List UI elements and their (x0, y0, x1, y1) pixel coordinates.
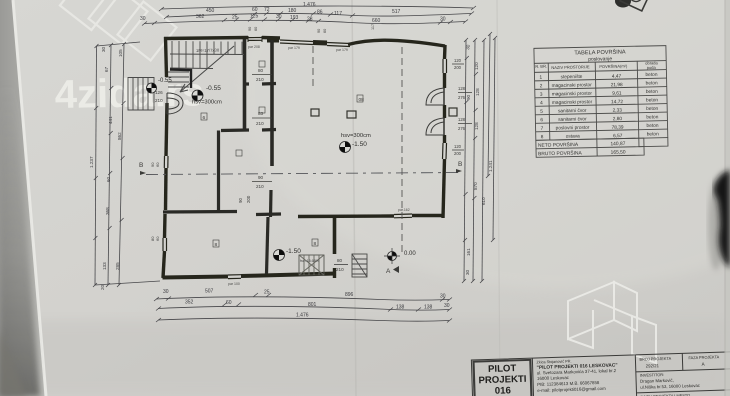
top dim line 1 overall (161, 6, 473, 9)
svg-text:beton: beton (646, 106, 658, 112)
table rows (539, 72, 659, 141)
left small horizontal hooks top (95, 42, 160, 285)
stair mid divider (170, 53, 244, 56)
wall H2 (221, 130, 276, 131)
svg-text:magacinski prostor: magacinski prostor (552, 99, 593, 106)
svg-text:352: 352 (185, 300, 194, 306)
svg-text:30: 30 (276, 14, 282, 20)
right dim vertical R3 (482, 40, 484, 281)
svg-text:138: 138 (396, 305, 405, 311)
section marker A (386, 266, 399, 275)
svg-text:30: 30 (440, 17, 446, 23)
svg-text:-0.55: -0.55 (158, 78, 172, 84)
window 80/60 left (162, 238, 164, 251)
svg-text:140,87: 140,87 (610, 141, 625, 147)
table header (535, 60, 658, 72)
svg-text:fsv=15.65%: fsv=15.65% (300, 259, 320, 263)
wall left: top corner down to door (166, 37, 167, 77)
top line3 ticks (142, 18, 468, 26)
svg-text:90: 90 (466, 94, 471, 100)
label 90/60 top windows (248, 24, 375, 33)
wall top pier V4 head (267, 38, 279, 43)
darker bottom band (0, 320, 730, 396)
svg-text:90: 90 (248, 27, 252, 31)
svg-text:105: 105 (118, 49, 123, 57)
broj/faza cells (639, 354, 721, 396)
svg-text:beton: beton (646, 123, 658, 129)
left off-paper edge (0, 0, 46, 396)
svg-text:par 100: par 100 (228, 282, 240, 286)
svg-text:PILOT: PILOT (488, 363, 517, 375)
svg-text:par 179: par 179 (336, 48, 348, 52)
svg-text:magacinski prostor: magacinski prostor (552, 82, 593, 89)
svg-text:TABELA POVRŠINA: TABELA POVRŠINA (574, 48, 626, 56)
inner stair hatched (299, 255, 324, 275)
svg-text:120: 120 (474, 62, 479, 70)
stair enclosure L-wall (170, 70, 191, 89)
svg-text:par 208: par 208 (248, 45, 260, 49)
svg-text:beton: beton (645, 72, 657, 78)
svg-text:120: 120 (454, 58, 462, 63)
svg-text:80: 80 (258, 68, 264, 73)
section marker B left (139, 162, 146, 175)
marker -1.50 big room (340, 142, 351, 153)
wall V1 stair divider (243, 39, 247, 131)
svg-text:60: 60 (106, 176, 111, 182)
svg-text:A: A (386, 268, 391, 275)
svg-text:90: 90 (258, 175, 264, 180)
wall H5 lower-right horizontal (298, 216, 444, 217)
marker -1.50 lower room (274, 250, 285, 261)
right paper edge line (726, 0, 730, 396)
label 90/200 near H3 (238, 195, 251, 203)
svg-text:hsv=300cm: hsv=300cm (341, 133, 371, 139)
door pier between arcs (443, 105, 446, 118)
svg-text:128: 128 (475, 88, 480, 96)
svg-text:PROJEKTI: PROJEKTI (478, 374, 527, 387)
door arc lower (426, 118, 444, 135)
svg-text:276: 276 (458, 95, 466, 100)
svg-text:368: 368 (105, 207, 110, 215)
svg-text:276: 276 (458, 126, 466, 131)
dashed axis vertical short (312, 46, 314, 86)
svg-text:4: 4 (540, 100, 543, 106)
svg-text:90: 90 (238, 198, 243, 203)
svg-text:200: 200 (454, 65, 462, 70)
svg-text:30: 30 (440, 294, 446, 300)
svg-text:200: 200 (246, 195, 251, 203)
svg-text:128: 128 (458, 117, 466, 122)
window 120/200 right top (442, 59, 444, 73)
wall V4 upper (270, 40, 274, 166)
paper crease 2 (497, 0, 500, 396)
svg-text:R. BR.: R. BR. (535, 64, 547, 69)
svg-text:80: 80 (337, 258, 343, 263)
stair side flight along left wall (168, 72, 189, 87)
svg-text:sanitarni čvor: sanitarni čvor (558, 108, 587, 115)
svg-text:stepenište: stepenište (561, 74, 583, 80)
svg-text:78,39: 78,39 (612, 125, 624, 131)
stair bottom edge (170, 67, 213, 70)
window 90/60 top wall (248, 37, 262, 39)
svg-text:801: 801 (308, 302, 317, 308)
svg-text:210: 210 (256, 77, 264, 82)
top dim line 3 (144, 20, 465, 23)
svg-text:292/21: 292/21 (646, 363, 660, 368)
svg-text:72: 72 (264, 7, 270, 13)
svg-text:-1.50: -1.50 (286, 248, 301, 255)
svg-text:2,80: 2,80 (613, 116, 623, 122)
label 80/60 left window (150, 162, 160, 241)
svg-text:441: 441 (108, 116, 113, 124)
finger blob (714, 170, 730, 268)
window 120/200 right lower (442, 143, 445, 159)
svg-text:165,50: 165,50 (611, 149, 626, 155)
svg-text:20: 20 (100, 284, 105, 290)
wall top curved right portion (348, 40, 445, 46)
svg-text:3: 3 (540, 92, 543, 98)
wall right seg4 to corner (443, 159, 445, 218)
wall left: window to bottom corner (163, 251, 165, 278)
wall top mid segment (262, 36, 280, 40)
stair treads lower flight (172, 54, 207, 68)
svg-text:30: 30 (101, 46, 106, 52)
wall right seg2 (443, 73, 446, 88)
svg-text:POVRŠINA(m²): POVRŠINA(m²) (599, 63, 628, 69)
bottom dim line A (156, 297, 449, 300)
svg-text:21,98: 21,98 (611, 82, 623, 88)
wall V6 notch side (333, 217, 337, 254)
wall right seg3 (443, 135, 446, 143)
company info (536, 358, 618, 393)
svg-text:517: 517 (392, 9, 401, 15)
bottom dim line C (158, 318, 449, 321)
svg-text:016: 016 (495, 385, 511, 396)
marker 0.00 outside (384, 248, 400, 264)
svg-text:ostava: ostava (566, 133, 581, 139)
svg-text:FAZA PROJEKTA: FAZA PROJEKTA (688, 354, 719, 360)
svg-text:-0.55: -0.55 (206, 85, 221, 92)
left dim vertical L2 (108, 45, 111, 285)
svg-text:4,47: 4,47 (612, 74, 622, 80)
svg-text:2: 2 (540, 83, 543, 89)
svg-text:125: 125 (250, 14, 259, 20)
svg-text:1.241: 1.241 (488, 160, 493, 172)
svg-text:210: 210 (256, 121, 264, 126)
svg-text:117: 117 (371, 24, 375, 30)
svg-text:862: 862 (117, 132, 122, 140)
svg-text:par 179: par 179 (288, 46, 300, 50)
svg-text:Dragan Marković,: Dragan Marković, (640, 378, 674, 384)
svg-text:B: B (139, 162, 143, 169)
svg-text:poda: poda (647, 65, 657, 70)
svg-text:117: 117 (334, 11, 342, 17)
wall H1a sanit partition (246, 82, 276, 86)
svg-text:B: B (458, 161, 462, 168)
svg-text:08: 08 (359, 97, 365, 103)
right dim vertical R2 (473, 40, 475, 281)
marker -0.55 at left door (147, 83, 157, 93)
wall V6 lower jamb (333, 268, 336, 278)
title block frame (471, 351, 730, 396)
svg-text:25: 25 (264, 290, 270, 296)
svg-text:16000 Leskovac: 16000 Leskovac (537, 375, 570, 381)
svg-text:2,33: 2,33 (612, 108, 622, 114)
table frame (534, 46, 668, 158)
window dim labels right wall (454, 58, 466, 156)
label 80/210 notch door (336, 258, 344, 272)
window par162 in H5 (394, 213, 412, 216)
svg-text:1: 1 (539, 75, 542, 81)
wall H4 cross piece (256, 212, 281, 216)
svg-text:8: 8 (541, 134, 544, 140)
svg-text:30: 30 (163, 289, 169, 295)
svg-text:128: 128 (458, 86, 466, 91)
svg-text:60: 60 (155, 162, 160, 167)
lighter sheen top right (240, 0, 730, 290)
svg-text:beton: beton (646, 114, 658, 120)
wall H3 (163, 210, 237, 214)
svg-text:6: 6 (203, 115, 206, 121)
wall left: door sill to mid (166, 103, 167, 156)
wall top window strip 2 (327, 43, 350, 44)
svg-text:200: 200 (454, 151, 462, 156)
window 90/60 left wall (163, 156, 165, 168)
entrance door label 126/210 (155, 90, 163, 103)
door arc upper (426, 88, 444, 105)
svg-text:1.476: 1.476 (296, 313, 309, 319)
svg-text:285: 285 (115, 262, 120, 270)
svg-text:beton: beton (646, 89, 658, 95)
svg-text:hsv=300cm: hsv=300cm (192, 100, 222, 106)
wall V3 (217, 131, 220, 213)
table totals (538, 140, 626, 157)
svg-text:128: 128 (474, 122, 479, 130)
svg-text:610: 610 (481, 197, 486, 205)
svg-text:par.162: par.162 (398, 208, 410, 212)
dashed axis vertical long (401, 47, 403, 255)
svg-text:8: 8 (215, 242, 218, 248)
outer entry steps (352, 254, 367, 277)
svg-text:6: 6 (540, 117, 543, 123)
corner stamp top-right (615, 0, 631, 8)
svg-text:INVESTITOR:: INVESTITOR: (640, 372, 665, 378)
PILOT PROJEKTI 016 box (474, 360, 531, 396)
svg-text:beton: beton (647, 131, 659, 137)
wall top-left segment (164, 38, 248, 39)
wall top window strip par179 (280, 40, 313, 42)
svg-text:86: 86 (317, 10, 323, 16)
svg-text:90: 90 (317, 29, 321, 33)
svg-text:896: 896 (345, 292, 354, 298)
svg-text:30: 30 (140, 16, 146, 22)
wall V4 lower (269, 190, 273, 217)
svg-text:362: 362 (196, 14, 205, 20)
svg-text:8: 8 (314, 241, 317, 247)
left dim vertical L3 (119, 44, 124, 285)
svg-text:60: 60 (226, 300, 232, 306)
svg-text:0.00: 0.00 (404, 251, 416, 257)
fraction bars (252, 74, 272, 76)
svg-text:sanitarni čvor: sanitarni čvor (558, 116, 587, 123)
svg-text:28: 28 (307, 17, 313, 23)
wall V4 bottom run (267, 217, 269, 274)
svg-text:-1.50: -1.50 (352, 141, 367, 148)
door leaf arcs at left entrance (167, 93, 183, 114)
section line B-B dashed (146, 173, 460, 175)
svg-text:660: 660 (372, 18, 381, 24)
left dim vertical L1 (95, 46, 97, 285)
svg-text:1M=17/7x30: 1M=17/7x30 (196, 48, 220, 53)
svg-text:870: 870 (473, 182, 478, 190)
wall bottom (163, 274, 337, 278)
svg-text:210: 210 (256, 184, 264, 189)
svg-text:beton: beton (646, 80, 658, 86)
top dim line 2 (166, 13, 471, 17)
svg-text:60: 60 (323, 29, 327, 33)
watermark flag bottom-right (568, 282, 656, 363)
svg-text:1.476: 1.476 (303, 2, 316, 8)
svg-text:BROJ PROJEKTA: BROJ PROJEKTA (639, 356, 671, 362)
svg-text:126: 126 (155, 90, 163, 95)
wall left: mid to window (163, 214, 167, 238)
table title (574, 48, 626, 63)
svg-text:25: 25 (232, 15, 238, 21)
svg-text:6,57: 6,57 (613, 133, 623, 139)
stair treads upper flight (172, 41, 242, 55)
svg-text:magacinski prostor: magacinski prostor (552, 91, 593, 98)
svg-text:9,61: 9,61 (612, 91, 622, 97)
svg-text:30: 30 (465, 269, 470, 275)
svg-text:NAZIV PROSTORIJE: NAZIV PROSTORIJE (551, 64, 590, 70)
svg-text:193: 193 (290, 15, 299, 21)
svg-text:poslovni prostor: poslovni prostor (556, 125, 590, 132)
svg-text:30: 30 (444, 303, 450, 309)
svg-text:120: 120 (454, 144, 462, 149)
right dim vertical R5 (493, 38, 495, 240)
svg-text:180: 180 (288, 8, 297, 14)
svg-text:60: 60 (252, 7, 258, 13)
svg-text:7: 7 (541, 126, 544, 132)
wall right upper pier (443, 45, 447, 59)
svg-text:1.237: 1.237 (89, 156, 94, 168)
svg-text:beton: beton (646, 97, 658, 103)
stair arrow diagonal (180, 46, 234, 92)
top line2 ticks (164, 12, 474, 20)
svg-text:507: 507 (205, 289, 214, 295)
svg-text:450: 450 (206, 8, 215, 14)
svg-text:210: 210 (155, 98, 163, 103)
svg-text:14,72: 14,72 (611, 99, 623, 105)
bottom dim line B (158, 306, 449, 310)
svg-text:133: 133 (102, 262, 107, 270)
svg-text:60: 60 (155, 236, 160, 241)
small column squares (311, 108, 457, 118)
svg-text:poslovanje: poslovanje (588, 56, 612, 63)
svg-text:138: 138 (424, 305, 433, 311)
opening par100 bottom (228, 274, 241, 276)
wall top pier mid (313, 40, 327, 46)
svg-text:60: 60 (254, 27, 258, 31)
right dim vertical R1 (464, 40, 466, 281)
svg-text:210: 210 (336, 267, 344, 272)
watermark diamonds top-left (60, 0, 177, 60)
svg-text:161: 161 (466, 248, 471, 256)
paper crease (352, 0, 356, 396)
svg-text:67: 67 (104, 66, 109, 72)
right dim vertical R4 near table (488, 34, 490, 176)
marker -0.55 hall (192, 90, 203, 101)
section marker B right (456, 161, 462, 173)
finger shadow (708, 180, 724, 270)
svg-text:5: 5 (540, 109, 543, 115)
